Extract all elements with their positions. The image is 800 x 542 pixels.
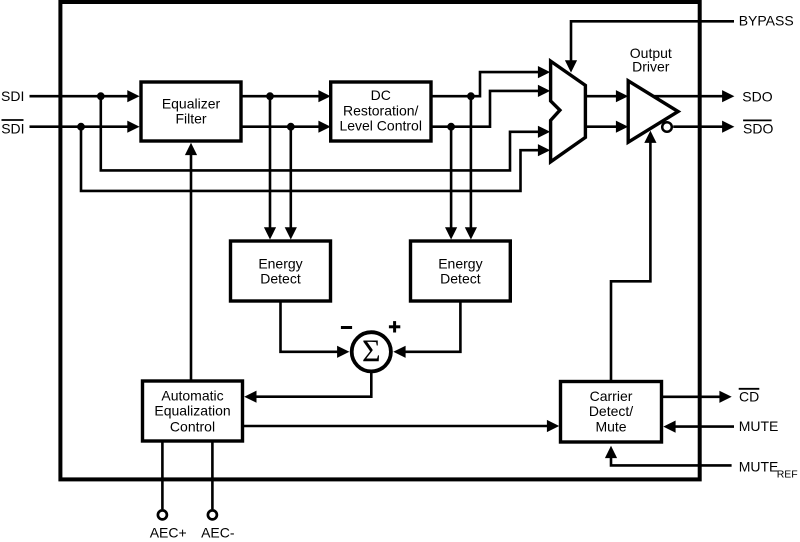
- svg-text:MUTE: MUTE: [739, 418, 779, 434]
- wire CD output: [662, 391, 732, 403]
- wire row1 down to right energy detect: [465, 96, 477, 239]
- svg-text:SDI: SDI: [1, 120, 24, 136]
- svg-text:SDO: SDO: [743, 120, 773, 136]
- wire mux to driver row1: [585, 90, 628, 102]
- wire right energy detect to summer: [393, 301, 460, 358]
- node MUTE label: [739, 418, 779, 434]
- svg-text:CD: CD: [739, 389, 759, 405]
- node Output Driver label: [630, 45, 672, 75]
- node SDI label: [1, 88, 24, 104]
- wire mux to driver row2: [585, 121, 628, 133]
- node BYPASS label: [739, 12, 794, 28]
- svg-text:Detect: Detect: [260, 271, 301, 287]
- wire DC out row1 to mux input 1: [431, 66, 550, 96]
- node SDOB label (overline): [743, 120, 773, 136]
- node CD label (overline): [739, 389, 760, 405]
- inversion bubble: [662, 122, 672, 132]
- node AEC+ label: [150, 525, 187, 541]
- wire SDIB input: [30, 121, 140, 133]
- svg-text:SDO: SDO: [742, 88, 772, 104]
- summer U6 (sigma): [352, 332, 391, 371]
- wire summer to AEC: [244, 371, 371, 402]
- svg-text:Driver: Driver: [632, 59, 670, 75]
- node MUTEREF label (subscript): [739, 458, 798, 480]
- svg-text:Energy: Energy: [438, 255, 482, 271]
- svg-text:Detect/: Detect/: [589, 403, 633, 419]
- wire MUTEREF input: [605, 446, 732, 466]
- wire SDO output: [653, 90, 734, 102]
- wire SDI bypass to mux input 3: [101, 96, 550, 170]
- wire carrier detect to output driver: [611, 131, 657, 382]
- node SDI junction: [97, 92, 105, 100]
- wire SDOB output: [673, 121, 734, 133]
- svg-text:Energy: Energy: [258, 255, 302, 271]
- node AEC- label: [201, 525, 235, 541]
- svg-text:DC: DC: [371, 87, 391, 103]
- node SDO label: [742, 88, 772, 104]
- block U1 Equalizer Filter: [141, 82, 241, 141]
- wire DC out row2 to mux input 2: [431, 85, 550, 127]
- wire EQ to DC row1: [241, 90, 331, 102]
- svg-text:Mute: Mute: [595, 419, 626, 435]
- svg-text:AEC+: AEC+: [150, 525, 187, 541]
- node SDIB label (overline): [1, 120, 24, 136]
- svg-text:AEC-: AEC-: [201, 525, 235, 541]
- wire AEC to carrier detect: [243, 420, 560, 432]
- wire AEC to equalizer filter: [185, 143, 197, 381]
- node EQ out row2 junction: [287, 123, 295, 131]
- amplifier U3 Output Driver: [628, 81, 678, 142]
- wire BYPASS to mux select: [565, 21, 734, 72]
- svg-text:SDI: SDI: [1, 88, 24, 104]
- svg-text:Filter: Filter: [175, 110, 206, 126]
- wire left energy detect to summer: [281, 301, 350, 358]
- wire AEC- pin: [211, 441, 214, 509]
- wire SDI input: [30, 90, 140, 102]
- wire EQ to DC row2: [241, 121, 331, 133]
- svg-text:REF: REF: [777, 469, 798, 481]
- node plus sign: [389, 321, 400, 332]
- svg-text:Carrier: Carrier: [590, 388, 633, 404]
- terminal AEC+: [158, 510, 167, 519]
- svg-text:Equalization: Equalization: [154, 403, 230, 419]
- node EQ out row1 junction: [266, 92, 274, 100]
- chip boundary: [60, 2, 699, 479]
- block U2 DC Restoration / Level Control: [331, 82, 431, 141]
- terminal AEC-: [208, 510, 217, 519]
- svg-text:Equalizer: Equalizer: [162, 95, 221, 111]
- wire MUTE input: [663, 421, 734, 433]
- block U5 Energy Detect (right): [411, 241, 511, 301]
- svg-text:Detect: Detect: [440, 271, 481, 287]
- node DC out row2 junction: [447, 123, 455, 131]
- svg-text:Automatic: Automatic: [161, 388, 223, 404]
- wire row2 down to right energy detect: [445, 127, 457, 240]
- block U7 Automatic Equalization Control: [143, 381, 243, 441]
- wire row2 down to left energy detect: [285, 127, 297, 240]
- node minus sign: [341, 326, 352, 329]
- mux (bypass selector): [551, 61, 586, 162]
- svg-text:Restoration/: Restoration/: [343, 103, 419, 119]
- wire SDIB bypass to mux input 4: [81, 127, 550, 191]
- svg-text:Control: Control: [170, 419, 215, 435]
- block U4 Energy Detect (left): [231, 241, 331, 301]
- block U8 Carrier Detect / Mute: [561, 382, 662, 443]
- svg-text:MUTE: MUTE: [739, 458, 779, 474]
- svg-text:BYPASS: BYPASS: [739, 12, 794, 28]
- node DC out row1 junction: [467, 92, 475, 100]
- svg-text:Level Control: Level Control: [339, 118, 422, 134]
- node SDIB junction: [77, 123, 85, 131]
- wire row1 down to left energy detect: [264, 96, 276, 239]
- wire AEC+ pin: [161, 441, 164, 509]
- svg-text:Σ: Σ: [362, 332, 381, 368]
